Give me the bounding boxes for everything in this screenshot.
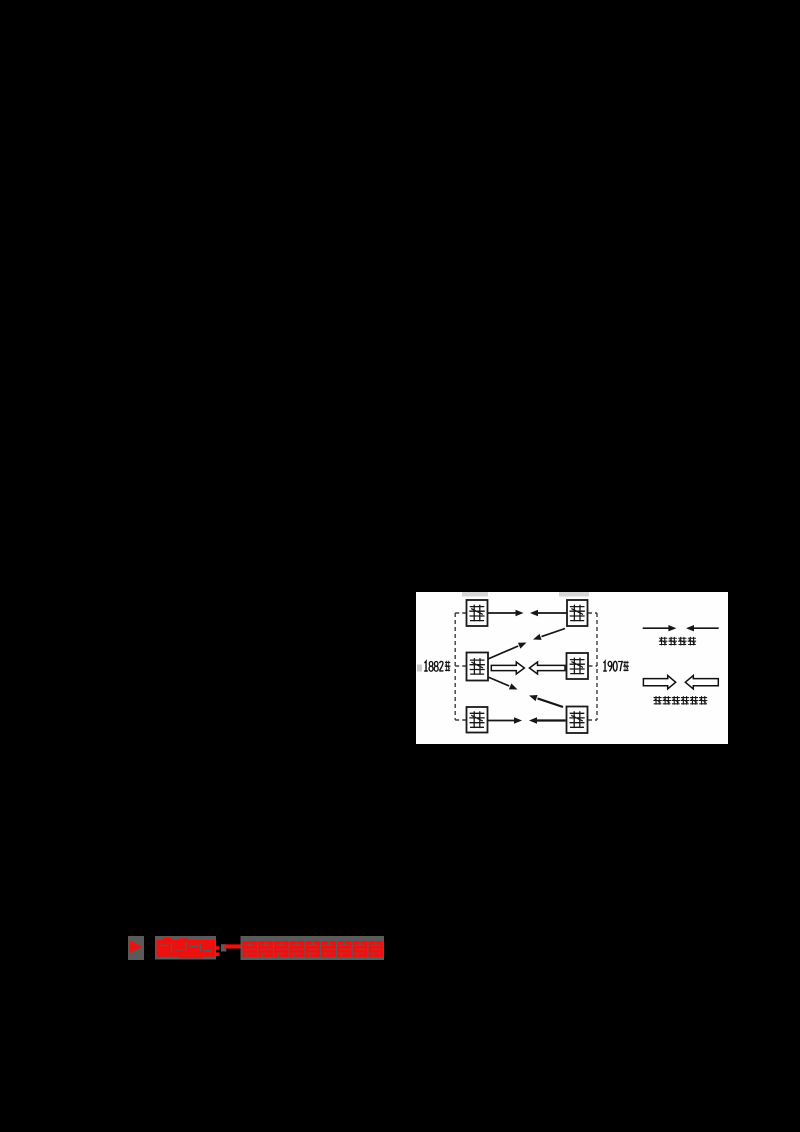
dashed bracket left (Triple Alliance 1882) (455, 613, 466, 720)
diagonal arrow 法↙ (533, 629, 565, 640)
gray blob left of 1882年 (417, 665, 422, 672)
box 法 (France) (567, 600, 588, 626)
box 奥 (Austria) (467, 707, 488, 733)
dashed bracket right (Triple Entente 1907) (588, 613, 597, 720)
red play triangle (130, 940, 143, 953)
legend text 表示矛盾 (659, 637, 696, 645)
diagonal arrow 德↗ (contradiction 德/法) (488, 643, 527, 660)
gray chip with play marker (128, 936, 144, 960)
faint gray smudge above box 意 (462, 592, 488, 597)
box 德 (Germany) (467, 653, 489, 681)
red em-dash — (225, 944, 243, 948)
diagonal arrow 俄↖ (529, 695, 563, 707)
legend arrow → (643, 625, 677, 631)
legend arrow ← (686, 625, 719, 631)
hollow arrow 德⇒ (main contradiction) (491, 662, 524, 674)
white diagram panel (416, 592, 728, 744)
legend hollow arrow ⇒ (643, 676, 675, 689)
faint gray smudge above box 法 (559, 592, 589, 597)
box 俄 (Russia) (567, 707, 588, 734)
gray highlight behind heading run 1 (155, 936, 216, 960)
box 英 (Britain) (567, 653, 589, 679)
red banner (120, 930, 400, 965)
legend hollow arrow ⇐ (685, 676, 718, 689)
box 意 (Italy) (467, 600, 488, 626)
legend text 表示主要矛盾 (653, 696, 707, 704)
tiny gray fleck (221, 944, 226, 951)
diagonal arrow 德↘ (contradiction 德/俄) (488, 677, 518, 690)
arrow 意→ (contradiction 意/法) (488, 610, 524, 616)
arrow 奥→ (contradiction 奥/俄) (488, 717, 522, 723)
gray highlight behind heading run 2 (241, 936, 385, 960)
red heading run 2 (9 chars) (243, 941, 384, 957)
arrow ←法 (530, 610, 567, 616)
panel background (416, 592, 728, 744)
red heading run 1 (4 dense bold chars + colon) (157, 938, 220, 959)
hollow arrow ⇐英 (529, 662, 565, 674)
label 1882年 (424, 661, 450, 672)
label 1907年 (603, 661, 629, 672)
arrow ←俄 (529, 717, 566, 723)
